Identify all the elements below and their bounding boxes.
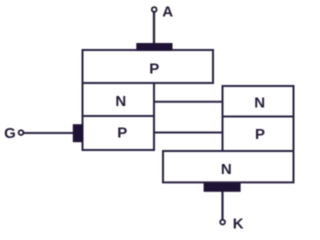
- svg-text:G: G: [4, 125, 16, 142]
- svg-text:N: N: [221, 161, 232, 178]
- svg-text:P: P: [117, 124, 127, 141]
- svg-text:A: A: [162, 3, 173, 20]
- svg-text:N: N: [115, 93, 126, 110]
- svg-text:K: K: [233, 216, 244, 233]
- svg-text:P: P: [149, 60, 159, 77]
- svg-text:N: N: [254, 94, 265, 111]
- svg-text:P: P: [255, 126, 265, 143]
